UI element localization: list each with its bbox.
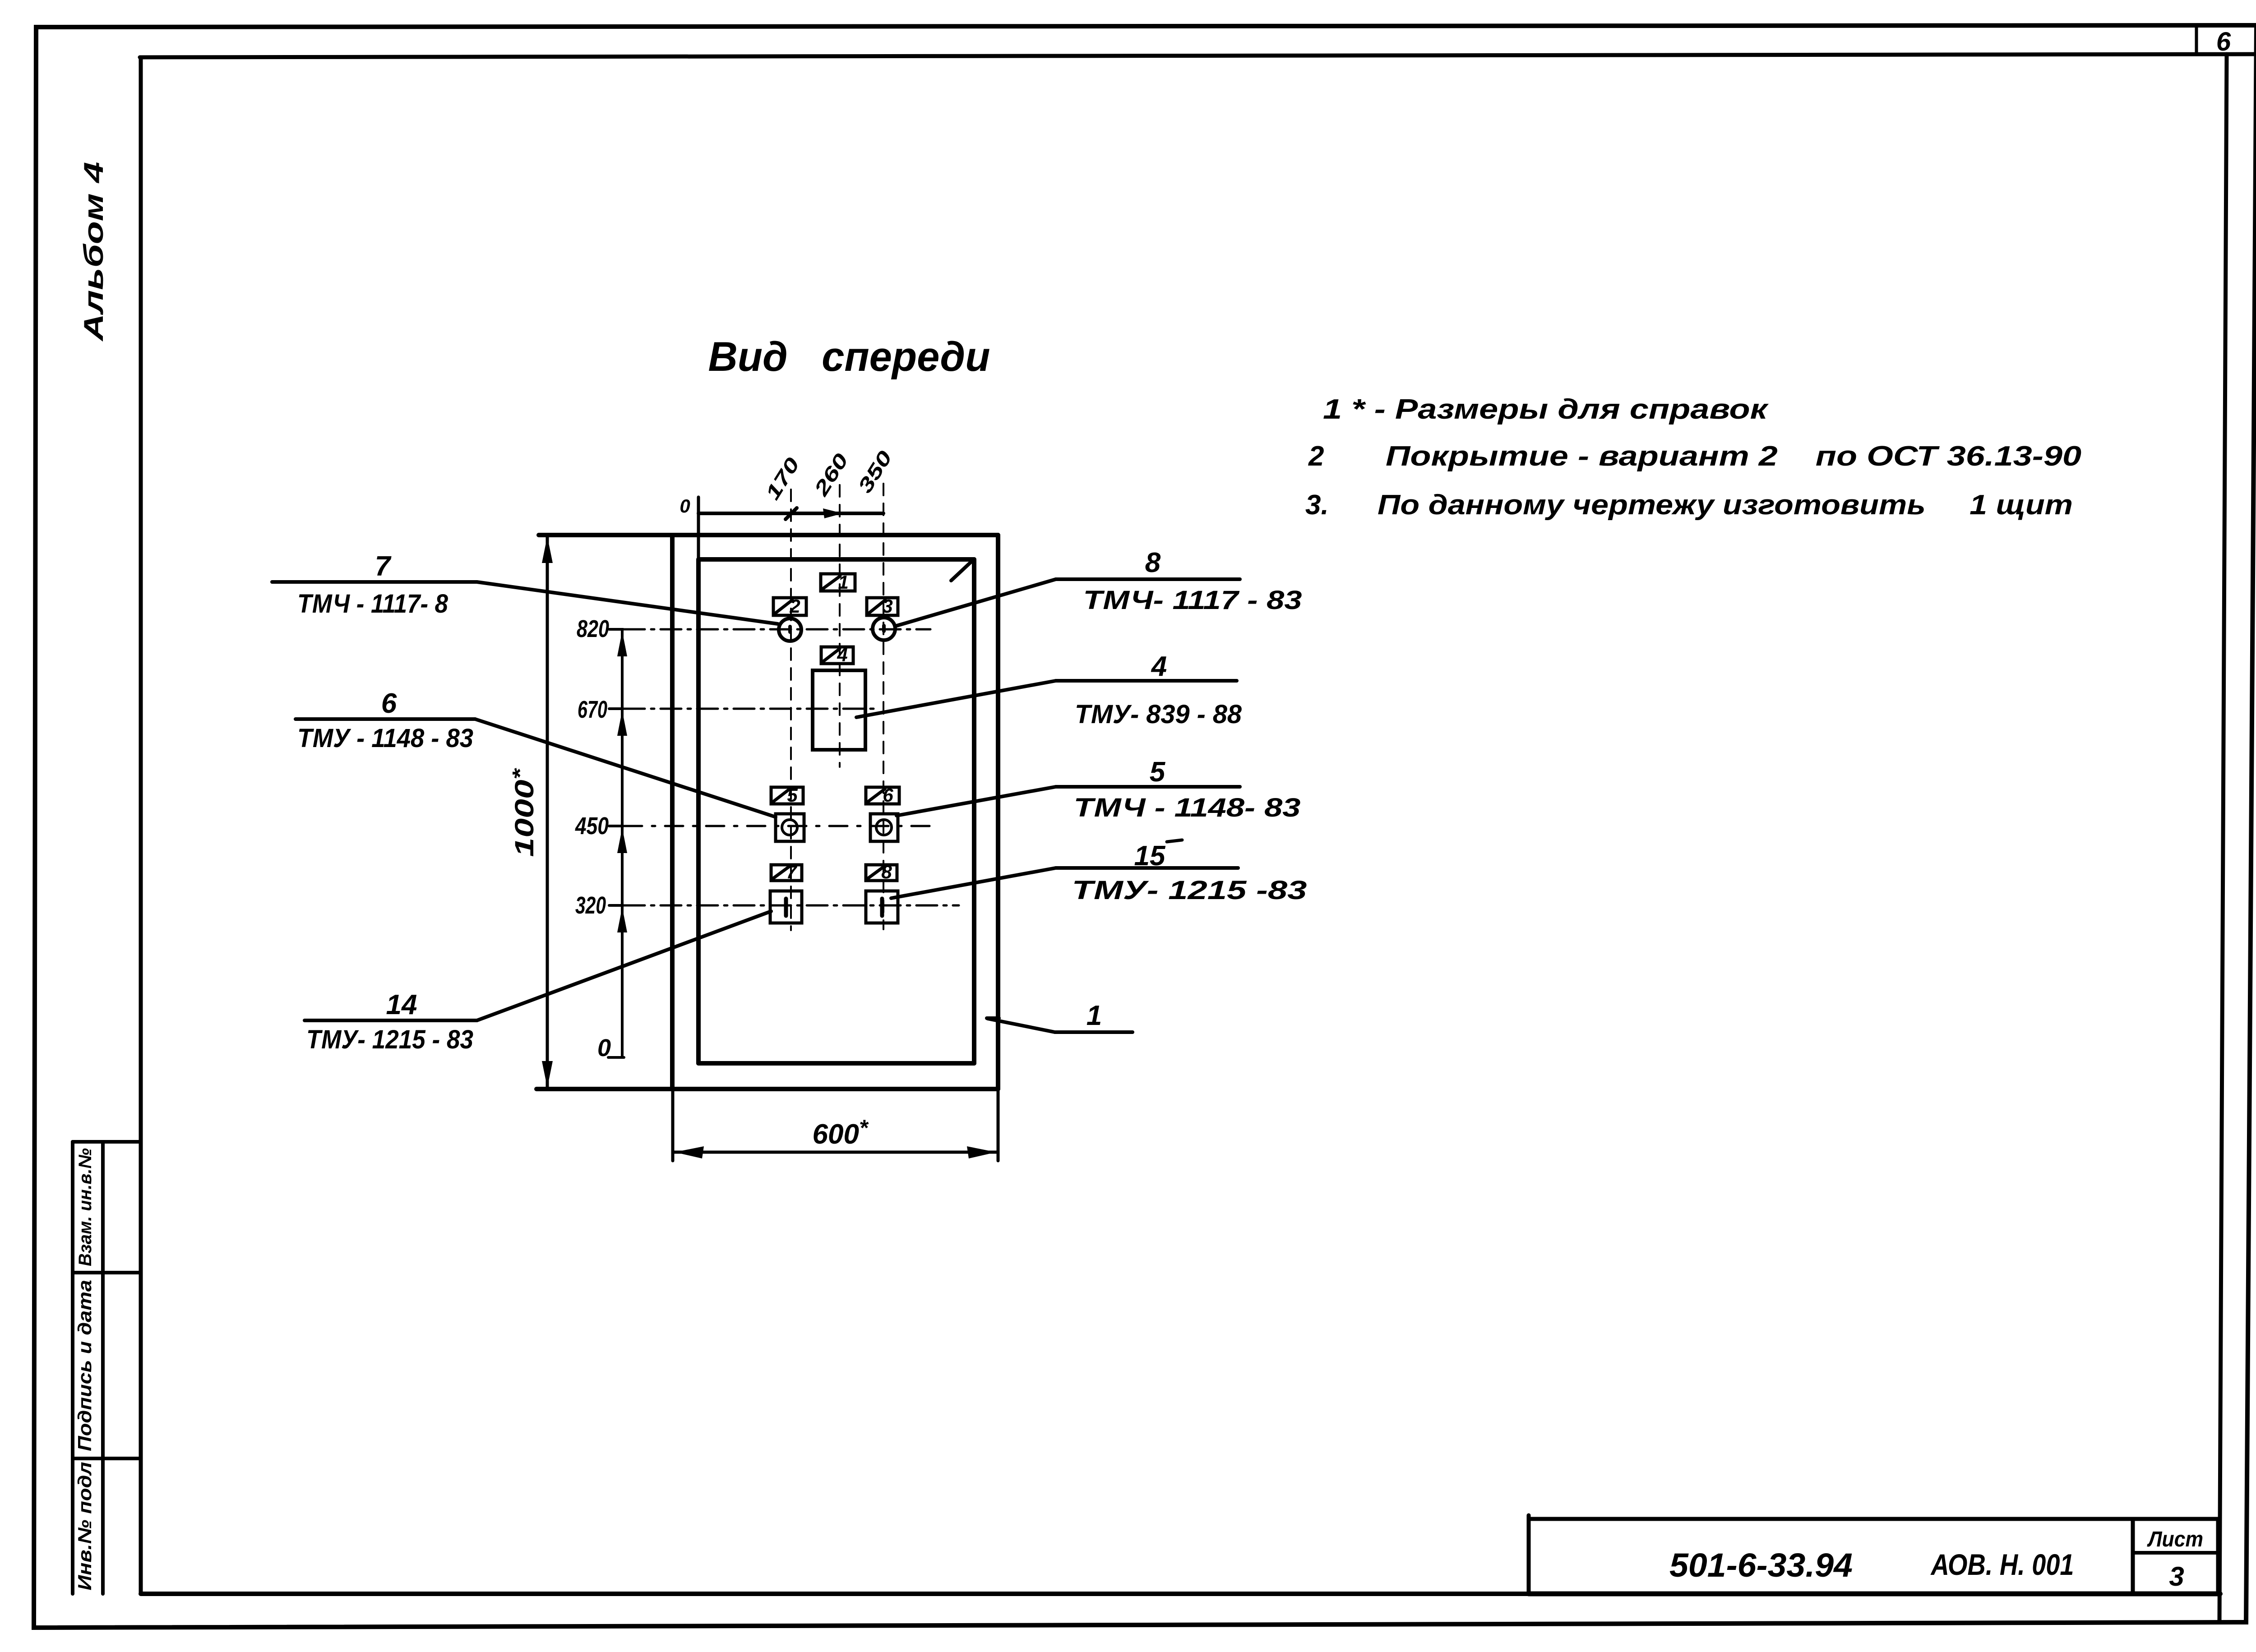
arrowheads 1000 dim (542, 536, 553, 563)
axis line 320 (624, 904, 959, 907)
svg-text:ТМУ- 1215 - 83: ТМУ- 1215 - 83 (306, 1025, 473, 1054)
svg-text:1 * - Размеры для справок: 1 * - Размеры для справок (1323, 394, 1769, 425)
svg-text:6: 6 (381, 688, 397, 719)
svg-text:По данному чертежу изготовить: По данному чертежу изготовить 1 щит (1378, 489, 2073, 521)
position tag 1 (821, 574, 855, 591)
callout 6 leader (296, 717, 475, 721)
svg-text:6: 6 (2216, 27, 2231, 56)
600 dimension line (673, 1151, 998, 1154)
callout 14 leader (305, 1019, 477, 1022)
tick 820 (609, 628, 623, 631)
svg-text:1000*: 1000* (508, 768, 539, 857)
callout 4 leader (1056, 679, 1237, 683)
button right (pos 5) (870, 814, 898, 841)
svg-text:Взам. ин.в.№: Взам. ин.в.№ (75, 1148, 95, 1266)
extension lines for 600 dimension (671, 1089, 675, 1161)
svg-text:5: 5 (787, 784, 798, 806)
position tag 3 (867, 598, 898, 615)
svg-text:ТМУ- 1215 -83: ТМУ- 1215 -83 (1072, 876, 1307, 905)
svg-text:1: 1 (1086, 1000, 1102, 1031)
svg-text:0: 0 (597, 1034, 611, 1061)
axis line 450 (624, 825, 935, 827)
stamp column table (71, 1142, 74, 1594)
svg-text:7: 7 (375, 551, 392, 582)
svg-text:Инв.№ подл: Инв.№ подл (74, 1462, 95, 1591)
svg-text:3: 3 (882, 595, 892, 617)
axis line 670 (624, 708, 879, 710)
title block box (1529, 1517, 2218, 1521)
button left (pos 6) (776, 814, 804, 841)
callout 8 leader (1056, 577, 1240, 581)
svg-text:3: 3 (2169, 1561, 2184, 1592)
arrowheads 600 dim (675, 1146, 704, 1158)
svg-text:Лист: Лист (2147, 1527, 2203, 1551)
svg-text:Подпись и дата: Подпись и дата (74, 1280, 95, 1451)
svg-text:8: 8 (1145, 547, 1161, 578)
position tag 6 (866, 787, 899, 804)
callout 5 leader (1056, 785, 1240, 789)
svg-text:ТМЧ - 1148- 83: ТМЧ - 1148- 83 (1074, 793, 1301, 822)
arrowhead on top ordinate dim (823, 508, 843, 518)
vertical ordinate dimension line (621, 629, 624, 1057)
tick 670 (609, 707, 623, 710)
panel inner door rectangle (698, 557, 974, 562)
position tag 8 (866, 865, 897, 881)
svg-text:670: 670 (578, 696, 607, 723)
svg-text:АОВ. Н. 001: АОВ. Н. 001 (1930, 1548, 2074, 1581)
top ordinate dimension line (0-170-260-350) (697, 497, 700, 559)
svg-text:14: 14 (386, 989, 417, 1020)
centre line 350 (883, 484, 884, 929)
svg-text:8: 8 (881, 861, 892, 882)
position tag 2 (773, 598, 806, 615)
svg-text:ТМЧ- 1117 - 83: ТМЧ- 1117 - 83 (1083, 586, 1302, 615)
switch right (pos 15) (866, 891, 898, 923)
svg-text:450: 450 (575, 812, 609, 840)
arrowheads on ordinate line (617, 631, 627, 656)
svg-text:6: 6 (883, 784, 893, 806)
callout 15 leader (1056, 866, 1238, 870)
switch left (pos 14) (770, 891, 802, 923)
svg-text:2: 2 (789, 595, 800, 617)
lamp left (pos 7) (779, 618, 801, 641)
svg-text:1: 1 (838, 572, 848, 593)
position tag 5 (771, 787, 803, 804)
svg-text:4: 4 (1151, 651, 1167, 682)
svg-text:4: 4 (837, 644, 847, 665)
centre line 170 (790, 489, 792, 930)
svg-text:320: 320 (575, 892, 606, 919)
1000 dimension line (546, 535, 549, 1089)
axis line 820 (624, 628, 930, 631)
svg-text:820: 820 (577, 615, 609, 642)
callout 7 leader (272, 580, 477, 584)
svg-text:0: 0 (680, 495, 690, 517)
svg-text:ТМЧ - 1117- 8: ТМЧ - 1117- 8 (297, 589, 448, 618)
panel outer rectangle (pos 1) (539, 533, 998, 537)
svg-text:7: 7 (786, 861, 797, 882)
corner arrow at door top-right (951, 561, 972, 581)
svg-text:15: 15 (1134, 840, 1166, 872)
svg-text:501-6-33.94: 501-6-33.94 (1669, 1546, 1853, 1584)
svg-text:5: 5 (1150, 757, 1166, 788)
position tag 4 (821, 647, 853, 664)
tick 320 (609, 904, 623, 907)
svg-text:2: 2 (1308, 441, 1324, 472)
svg-text:3.: 3. (1305, 489, 1329, 521)
lamp right (pos 8) (873, 618, 895, 640)
tick 450 (609, 825, 623, 827)
svg-text:Покрытие - вариант 2 по ОСТ: Покрытие - вариант 2 по ОСТ 36.13-90 (1386, 441, 2081, 472)
position tag 7 (771, 865, 802, 881)
callout 1 leader (1055, 1030, 1133, 1034)
svg-text:ТМУ- 839 - 88: ТМУ- 839 - 88 (1075, 700, 1242, 729)
centre line 260 (839, 485, 841, 767)
svg-text:ТМУ - 1148 - 83: ТМУ - 1148 - 83 (297, 724, 473, 753)
device rectangle (pos 4) (813, 670, 865, 750)
svg-text:Вид спереди: Вид спереди (708, 334, 990, 380)
svg-text:Альбом 4: Альбом 4 (79, 162, 109, 342)
